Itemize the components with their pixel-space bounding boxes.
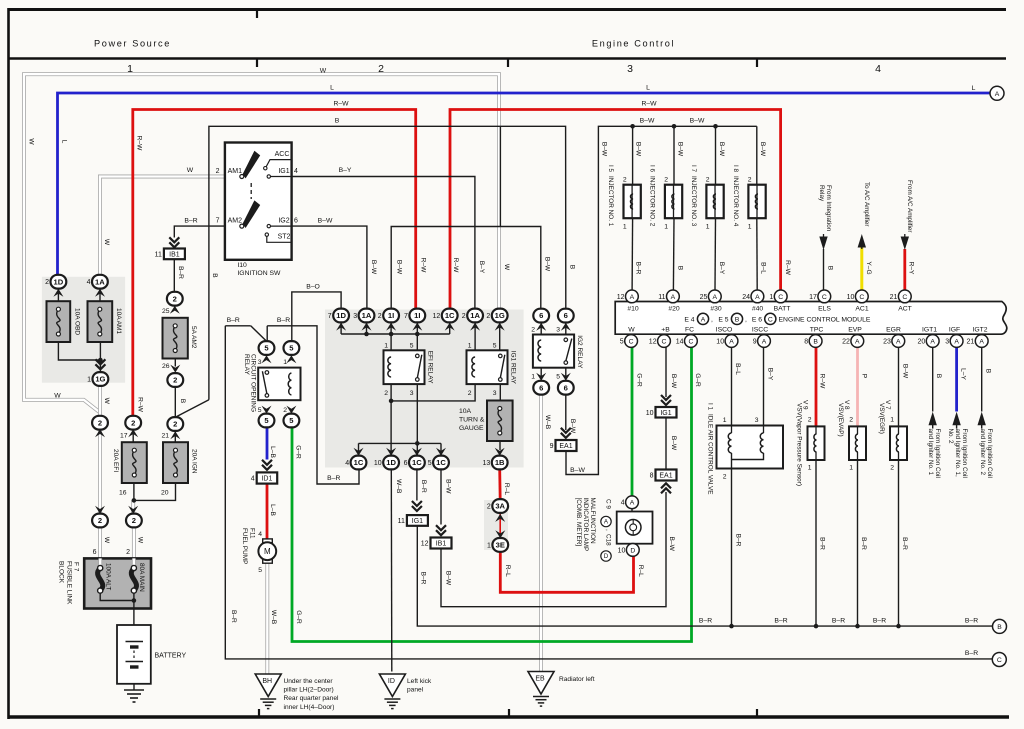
svg-text:INJECTOR NO. 2: INJECTOR NO. 2 bbox=[649, 176, 656, 227]
svg-text:IG1: IG1 bbox=[660, 410, 671, 417]
svg-text:From A/C Amplifier: From A/C Amplifier bbox=[906, 180, 913, 232]
svg-text:10: 10 bbox=[374, 460, 382, 467]
svg-text:3: 3 bbox=[627, 63, 633, 75]
svg-text:R–L: R–L bbox=[637, 565, 644, 577]
svg-text:RELAY: RELAY bbox=[243, 354, 250, 375]
svg-text:B–W: B–W bbox=[677, 142, 684, 157]
svg-text:I 5: I 5 bbox=[607, 165, 614, 173]
svg-text:B–W: B–W bbox=[570, 467, 585, 474]
svg-text:F11: F11 bbox=[249, 528, 256, 539]
svg-text:1C: 1C bbox=[412, 458, 422, 467]
svg-text:B–W: B–W bbox=[635, 142, 642, 157]
svg-text:W: W bbox=[28, 138, 35, 145]
svg-text:3: 3 bbox=[353, 313, 357, 320]
svg-text:W–B: W–B bbox=[395, 479, 402, 494]
svg-text:A: A bbox=[930, 338, 935, 345]
svg-text:Radiator left: Radiator left bbox=[559, 676, 595, 683]
svg-text:IB1: IB1 bbox=[169, 251, 180, 258]
svg-text:W–B: W–B bbox=[544, 415, 551, 430]
svg-text:B: B bbox=[826, 266, 833, 271]
svg-text:6: 6 bbox=[294, 217, 298, 224]
svg-text:BH: BH bbox=[262, 678, 272, 685]
svg-text:A: A bbox=[995, 91, 1000, 98]
svg-text:FUSIBLE LINK: FUSIBLE LINK bbox=[66, 561, 73, 605]
svg-text:A: A bbox=[855, 338, 860, 345]
svg-text:3: 3 bbox=[945, 338, 949, 345]
svg-text:11: 11 bbox=[155, 251, 162, 258]
svg-text:1D: 1D bbox=[54, 277, 64, 286]
svg-text:IDLE AIR CONTROL VALVE: IDLE AIR CONTROL VALVE bbox=[707, 414, 714, 495]
svg-text:1A: 1A bbox=[470, 311, 480, 320]
svg-text:23: 23 bbox=[883, 338, 891, 345]
svg-text:6: 6 bbox=[564, 383, 568, 392]
svg-text:B–R: B–R bbox=[699, 617, 712, 624]
svg-text:8: 8 bbox=[804, 338, 808, 345]
svg-text:9: 9 bbox=[550, 443, 554, 450]
svg-text:1: 1 bbox=[723, 417, 727, 424]
svg-text:E 6: E 6 bbox=[752, 317, 762, 324]
svg-text:25: 25 bbox=[700, 294, 708, 301]
svg-text:IG1 RELAY: IG1 RELAY bbox=[510, 351, 517, 385]
svg-text:BLOCK: BLOCK bbox=[58, 561, 65, 584]
svg-text:A: A bbox=[671, 294, 676, 301]
svg-text:A: A bbox=[755, 294, 760, 301]
svg-text:7: 7 bbox=[216, 217, 220, 224]
svg-text:EB: EB bbox=[535, 676, 545, 683]
svg-text:21: 21 bbox=[967, 338, 975, 345]
svg-text:2: 2 bbox=[216, 168, 220, 175]
svg-text:4: 4 bbox=[258, 531, 262, 538]
svg-text:B–W: B–W bbox=[569, 419, 576, 434]
svg-text:A: A bbox=[630, 500, 635, 507]
svg-text:10: 10 bbox=[646, 410, 654, 417]
svg-text:ID: ID bbox=[388, 678, 395, 685]
svg-text:5: 5 bbox=[258, 407, 262, 414]
svg-text:B: B bbox=[984, 369, 991, 374]
svg-text:4: 4 bbox=[621, 500, 625, 507]
svg-text:EVP: EVP bbox=[848, 326, 862, 333]
svg-text:2: 2 bbox=[664, 177, 668, 184]
svg-text:GAUGE: GAUGE bbox=[459, 425, 484, 432]
svg-text:ELS: ELS bbox=[818, 305, 831, 312]
svg-text:From Integration: From Integration bbox=[825, 185, 832, 232]
svg-text:EA1: EA1 bbox=[659, 473, 672, 480]
svg-text:L–B: L–B bbox=[269, 504, 276, 516]
svg-text:B–W: B–W bbox=[396, 260, 403, 275]
svg-text:ACT: ACT bbox=[898, 305, 912, 312]
svg-text:R–W: R–W bbox=[136, 136, 143, 151]
svg-text:5A AM2: 5A AM2 bbox=[190, 326, 197, 349]
svg-text:1: 1 bbox=[808, 464, 812, 471]
svg-text:2: 2 bbox=[378, 313, 382, 320]
svg-text:A: A bbox=[701, 316, 706, 323]
svg-text:IG2 RELAY: IG2 RELAY bbox=[576, 335, 583, 369]
svg-text:1: 1 bbox=[623, 224, 627, 231]
svg-text:1G: 1G bbox=[495, 311, 505, 320]
svg-text:BATTERY: BATTERY bbox=[155, 652, 187, 659]
svg-text:C: C bbox=[688, 338, 693, 345]
svg-text:Y–G: Y–G bbox=[865, 261, 872, 274]
svg-text:B–R: B–R bbox=[230, 610, 237, 623]
svg-text:L: L bbox=[646, 85, 650, 92]
svg-text:L–Y: L–Y bbox=[959, 368, 966, 380]
svg-text:B–W: B–W bbox=[670, 374, 677, 389]
svg-text:21: 21 bbox=[890, 294, 898, 301]
svg-text:4: 4 bbox=[87, 279, 91, 286]
svg-text:2: 2 bbox=[173, 294, 177, 303]
svg-text:13: 13 bbox=[483, 460, 491, 467]
svg-text:R–W: R–W bbox=[819, 374, 826, 389]
svg-text:INJECTOR NO. 1: INJECTOR NO. 1 bbox=[607, 176, 614, 227]
svg-text:R–W: R–W bbox=[333, 101, 349, 108]
svg-text:2: 2 bbox=[173, 376, 177, 385]
svg-text:L–B: L–B bbox=[269, 446, 276, 458]
svg-text:Power Source: Power Source bbox=[94, 39, 171, 49]
svg-text:B–R: B–R bbox=[901, 537, 908, 550]
svg-text:1D: 1D bbox=[386, 458, 396, 467]
svg-text:W: W bbox=[628, 326, 635, 333]
svg-text:20: 20 bbox=[918, 338, 926, 345]
svg-text:G–R: G–R bbox=[294, 445, 301, 459]
svg-text:B–W: B–W bbox=[370, 260, 377, 275]
svg-text:5: 5 bbox=[410, 342, 414, 349]
svg-text:6: 6 bbox=[93, 549, 97, 556]
svg-text:I 1: I 1 bbox=[707, 403, 714, 411]
svg-text:IGF: IGF bbox=[949, 326, 960, 333]
svg-text:11: 11 bbox=[398, 518, 405, 525]
svg-text:TURN &: TURN & bbox=[459, 417, 485, 424]
svg-text:[COMB. METER]: [COMB. METER] bbox=[575, 498, 582, 547]
svg-text:B: B bbox=[179, 399, 186, 404]
svg-text:EGR: EGR bbox=[886, 326, 901, 333]
svg-text:From Ignition Coil: From Ignition Coil bbox=[986, 429, 993, 478]
svg-text:80A MAIN: 80A MAIN bbox=[138, 563, 145, 592]
svg-text:2: 2 bbox=[890, 464, 894, 471]
svg-text:24: 24 bbox=[742, 294, 750, 301]
svg-text:1: 1 bbox=[384, 342, 388, 349]
svg-text:R–W: R–W bbox=[420, 258, 427, 273]
svg-text:Relay: Relay bbox=[818, 185, 825, 202]
svg-text:6: 6 bbox=[539, 311, 543, 320]
svg-text:B–W: B–W bbox=[670, 436, 677, 451]
svg-text:B–L: B–L bbox=[734, 363, 741, 375]
svg-text:2: 2 bbox=[283, 407, 287, 414]
svg-text:C: C bbox=[778, 294, 783, 301]
svg-text:12: 12 bbox=[433, 313, 441, 320]
svg-text:B–R: B–R bbox=[327, 475, 340, 482]
svg-text:1C: 1C bbox=[354, 458, 364, 467]
svg-text:and Igniter No. 2: and Igniter No. 2 bbox=[979, 429, 986, 476]
svg-text:VSV(EVAP): VSV(EVAP) bbox=[837, 403, 844, 437]
svg-text:inner LH(4–Door): inner LH(4–Door) bbox=[284, 704, 335, 711]
svg-text:B–Y: B–Y bbox=[339, 167, 352, 174]
svg-text:,: , bbox=[711, 317, 713, 324]
svg-text:IG2: IG2 bbox=[278, 217, 289, 224]
svg-text:Engine Control: Engine Control bbox=[592, 39, 675, 49]
svg-text:#40: #40 bbox=[752, 305, 764, 312]
svg-text:B–R: B–R bbox=[420, 480, 427, 493]
svg-text:E 4: E 4 bbox=[684, 317, 694, 324]
svg-text:B–W: B–W bbox=[718, 142, 725, 157]
svg-text:AC1: AC1 bbox=[855, 305, 868, 312]
svg-text:W: W bbox=[320, 68, 327, 75]
svg-text:2: 2 bbox=[131, 418, 135, 427]
svg-text:G–R: G–R bbox=[295, 610, 302, 624]
svg-text:W: W bbox=[54, 393, 61, 400]
svg-text:ID1: ID1 bbox=[261, 476, 272, 483]
svg-text:5: 5 bbox=[556, 373, 560, 380]
svg-text:2: 2 bbox=[706, 177, 710, 184]
svg-text:7: 7 bbox=[404, 313, 408, 320]
svg-text:IG1: IG1 bbox=[412, 518, 423, 525]
svg-text:C: C bbox=[629, 338, 634, 345]
svg-text:A: A bbox=[630, 294, 635, 301]
svg-text:ST2: ST2 bbox=[278, 233, 291, 240]
svg-text:R–W: R–W bbox=[452, 258, 459, 273]
svg-text:IB1: IB1 bbox=[436, 541, 447, 548]
svg-text:2: 2 bbox=[486, 313, 490, 320]
svg-text:,: , bbox=[604, 529, 611, 531]
svg-text:20A IGN: 20A IGN bbox=[191, 449, 198, 474]
svg-text:6: 6 bbox=[539, 383, 543, 392]
svg-text:4: 4 bbox=[251, 476, 255, 483]
svg-text:10A AM1: 10A AM1 bbox=[115, 308, 122, 334]
svg-text:4: 4 bbox=[345, 460, 349, 467]
svg-text:Left kick: Left kick bbox=[407, 678, 432, 685]
svg-text:100A ALT: 100A ALT bbox=[105, 563, 112, 590]
svg-text:BATT: BATT bbox=[774, 305, 791, 312]
svg-text:B–R: B–R bbox=[873, 617, 886, 624]
svg-text:R–Y: R–Y bbox=[908, 262, 915, 275]
svg-text:B: B bbox=[735, 316, 740, 323]
svg-text:14: 14 bbox=[676, 338, 684, 345]
svg-text:D: D bbox=[630, 547, 635, 554]
svg-text:FUEL PUMP: FUEL PUMP bbox=[241, 528, 248, 564]
svg-text:INDICATOR LAMP: INDICATOR LAMP bbox=[582, 498, 589, 552]
svg-text:10: 10 bbox=[618, 547, 626, 554]
svg-text:C 9: C 9 bbox=[604, 499, 611, 509]
svg-text:#10: #10 bbox=[627, 305, 639, 312]
svg-text:+B: +B bbox=[661, 326, 670, 333]
svg-text:3: 3 bbox=[258, 359, 262, 366]
svg-text:1: 1 bbox=[283, 359, 287, 366]
svg-text:B–W: B–W bbox=[318, 218, 333, 225]
svg-text:R–W: R–W bbox=[784, 260, 791, 275]
svg-text:B–W: B–W bbox=[690, 118, 705, 125]
svg-text:B–R: B–R bbox=[227, 317, 240, 324]
svg-text:C: C bbox=[768, 316, 773, 323]
svg-text:and Igniter No. 1,: and Igniter No. 1, bbox=[954, 429, 961, 478]
svg-text:ISCC: ISCC bbox=[752, 326, 768, 333]
svg-text:B–Y: B–Y bbox=[478, 261, 485, 274]
svg-text:B–W: B–W bbox=[640, 118, 655, 125]
svg-text:7: 7 bbox=[328, 313, 332, 320]
svg-text:2: 2 bbox=[808, 416, 812, 423]
svg-text:10A: 10A bbox=[459, 408, 472, 415]
svg-text:10: 10 bbox=[716, 338, 724, 345]
svg-text:1: 1 bbox=[890, 416, 894, 423]
svg-text:W: W bbox=[103, 537, 110, 544]
svg-text:FC: FC bbox=[685, 326, 694, 333]
svg-text:25: 25 bbox=[162, 308, 170, 315]
svg-text:8: 8 bbox=[650, 473, 654, 480]
svg-text:Rear quarter panel: Rear quarter panel bbox=[284, 695, 340, 702]
svg-text:2: 2 bbox=[98, 418, 102, 427]
svg-text:2: 2 bbox=[468, 390, 472, 397]
svg-text:20A EFI: 20A EFI bbox=[112, 449, 119, 472]
svg-text:B: B bbox=[997, 624, 1002, 631]
svg-text:I 6: I 6 bbox=[649, 165, 656, 173]
svg-text:D: D bbox=[604, 553, 609, 560]
svg-text:B–Y: B–Y bbox=[718, 262, 725, 275]
svg-text:ISCO: ISCO bbox=[716, 326, 733, 333]
svg-text:W: W bbox=[503, 264, 510, 271]
svg-text:C: C bbox=[662, 338, 667, 345]
svg-text:R–W: R–W bbox=[137, 397, 144, 412]
svg-text:A: A bbox=[954, 338, 959, 345]
svg-text:R–L: R–L bbox=[503, 483, 510, 495]
svg-text:B–R: B–R bbox=[832, 617, 845, 624]
svg-text:R–W: R–W bbox=[641, 101, 657, 108]
svg-text:B–R: B–R bbox=[860, 537, 867, 550]
svg-text:I 8: I 8 bbox=[732, 165, 739, 173]
svg-text:2: 2 bbox=[173, 420, 177, 429]
svg-text:B–W: B–W bbox=[444, 479, 451, 494]
svg-text:1: 1 bbox=[706, 224, 710, 231]
svg-text:1G: 1G bbox=[95, 375, 105, 384]
svg-text:AM1: AM1 bbox=[228, 168, 243, 175]
svg-text:1I: 1I bbox=[388, 311, 394, 320]
svg-text:L: L bbox=[972, 85, 976, 92]
svg-text:A: A bbox=[713, 294, 718, 301]
svg-text:3: 3 bbox=[493, 390, 497, 397]
svg-text:#30: #30 bbox=[710, 305, 722, 312]
svg-text:3: 3 bbox=[410, 390, 414, 397]
svg-text:From Ignition Coil: From Ignition Coil bbox=[934, 429, 941, 478]
svg-text:B: B bbox=[813, 338, 818, 345]
svg-text:C: C bbox=[822, 294, 827, 301]
svg-text:11: 11 bbox=[658, 294, 665, 301]
svg-text:B–R: B–R bbox=[184, 218, 197, 225]
svg-text:VSV(Vapor Pressure Sensor): VSV(Vapor Pressure Sensor) bbox=[796, 403, 803, 486]
svg-text:20: 20 bbox=[161, 490, 169, 497]
svg-text:R–L: R–L bbox=[504, 565, 511, 577]
svg-text:TPC: TPC bbox=[810, 326, 824, 333]
svg-text:B: B bbox=[335, 118, 340, 125]
svg-text:21: 21 bbox=[161, 433, 169, 440]
svg-text:IGT2: IGT2 bbox=[972, 326, 987, 333]
svg-text:pillar LH(2–Door): pillar LH(2–Door) bbox=[284, 687, 334, 694]
svg-text:17: 17 bbox=[809, 294, 817, 301]
svg-text:B–W: B–W bbox=[444, 571, 451, 586]
svg-text:10: 10 bbox=[847, 294, 855, 301]
svg-text:A: A bbox=[896, 338, 901, 345]
svg-text:From Ignition Coil: From Ignition Coil bbox=[961, 429, 968, 478]
svg-text:B–Y: B–Y bbox=[767, 368, 774, 381]
svg-text:,: , bbox=[745, 317, 747, 324]
svg-text:B–R: B–R bbox=[965, 650, 978, 657]
svg-text:2: 2 bbox=[723, 474, 727, 481]
svg-text:5: 5 bbox=[258, 567, 262, 574]
svg-text:VSV(EGR): VSV(EGR) bbox=[878, 403, 885, 434]
svg-text:B–R: B–R bbox=[635, 262, 642, 275]
svg-text:12: 12 bbox=[421, 541, 429, 548]
svg-text:E 5: E 5 bbox=[718, 317, 728, 324]
svg-text:B–W: B–W bbox=[668, 537, 675, 552]
svg-text:2: 2 bbox=[126, 549, 130, 556]
svg-text:3A: 3A bbox=[495, 502, 505, 511]
svg-text:MALFUNCTION: MALFUNCTION bbox=[589, 498, 596, 545]
svg-text:I 7: I 7 bbox=[690, 165, 697, 173]
svg-text:1I: 1I bbox=[414, 311, 420, 320]
svg-text:1: 1 bbox=[769, 294, 773, 301]
svg-text:B–R: B–R bbox=[734, 534, 741, 547]
svg-text:2: 2 bbox=[45, 279, 49, 286]
svg-text:B–W: B–W bbox=[544, 257, 551, 272]
svg-text:A: A bbox=[979, 338, 984, 345]
svg-text:B–R: B–R bbox=[419, 572, 426, 585]
svg-text:2: 2 bbox=[132, 516, 136, 525]
svg-text:L: L bbox=[330, 85, 334, 92]
svg-text:#20: #20 bbox=[668, 305, 680, 312]
svg-text:B–O: B–O bbox=[306, 283, 320, 290]
svg-text:To A/C Amplifier: To A/C Amplifier bbox=[863, 182, 870, 226]
svg-text:EA1: EA1 bbox=[559, 443, 572, 450]
svg-text:2: 2 bbox=[487, 504, 491, 511]
svg-text:1A: 1A bbox=[95, 277, 105, 286]
svg-text:panel: panel bbox=[407, 687, 424, 694]
svg-text:5: 5 bbox=[428, 460, 432, 467]
svg-text:1D: 1D bbox=[336, 311, 346, 320]
svg-text:ENGINE CONTROL MODULE: ENGINE CONTROL MODULE bbox=[779, 317, 871, 324]
svg-text:1C: 1C bbox=[445, 311, 455, 320]
svg-text:1: 1 bbox=[531, 373, 535, 380]
svg-text:B–W: B–W bbox=[759, 142, 766, 157]
svg-text:B–R: B–R bbox=[277, 317, 290, 324]
svg-text:1C: 1C bbox=[436, 458, 446, 467]
svg-text:B: B bbox=[569, 265, 576, 270]
svg-text:2: 2 bbox=[98, 516, 102, 525]
svg-text:C18: C18 bbox=[604, 534, 611, 546]
svg-text:IGNITION SW: IGNITION SW bbox=[237, 270, 281, 277]
svg-text:G–R: G–R bbox=[635, 373, 642, 387]
svg-text:26: 26 bbox=[162, 363, 170, 370]
svg-text:17: 17 bbox=[120, 433, 128, 440]
svg-text:1B: 1B bbox=[495, 458, 505, 467]
svg-text:B–R: B–R bbox=[965, 617, 978, 624]
svg-text:2: 2 bbox=[462, 313, 466, 320]
svg-text:W: W bbox=[103, 239, 110, 246]
svg-text:C: C bbox=[997, 657, 1002, 664]
svg-text:C: C bbox=[859, 294, 864, 301]
svg-text:3E: 3E bbox=[496, 541, 505, 550]
svg-text:4: 4 bbox=[294, 168, 298, 175]
svg-text:2: 2 bbox=[849, 416, 853, 423]
svg-text:B: B bbox=[677, 266, 684, 271]
svg-text:INJECTOR NO. 3: INJECTOR NO. 3 bbox=[690, 176, 697, 227]
svg-text:5: 5 bbox=[620, 338, 624, 345]
svg-text:B–R: B–R bbox=[819, 537, 826, 550]
svg-text:B–R: B–R bbox=[177, 266, 184, 279]
svg-text:F 7: F 7 bbox=[73, 562, 80, 572]
svg-text:G–R: G–R bbox=[694, 373, 701, 387]
svg-text:EFI RELAY: EFI RELAY bbox=[427, 351, 434, 384]
svg-text:12: 12 bbox=[649, 338, 657, 345]
svg-text:W–B: W–B bbox=[270, 610, 277, 625]
svg-text:W: W bbox=[103, 398, 110, 405]
svg-text:4: 4 bbox=[875, 63, 881, 75]
svg-text:W: W bbox=[187, 167, 194, 174]
